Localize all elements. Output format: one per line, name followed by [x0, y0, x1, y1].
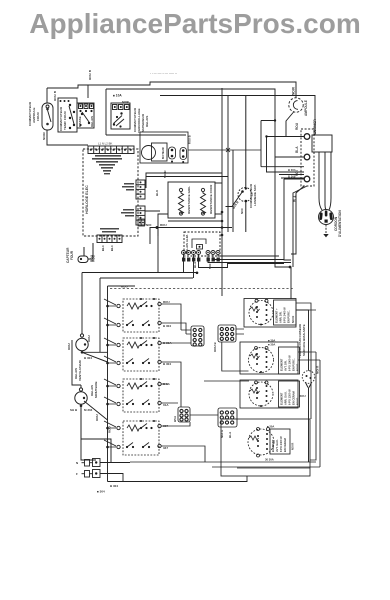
wire [310, 352, 320, 467]
label: marks above bottom strip [100, 228, 119, 233]
svg-text:MINUTERIE: MINUTERIE [94, 382, 98, 399]
wire feeds into bornier [261, 121, 304, 180]
element box 3 [279, 381, 300, 407]
label [133, 107, 149, 133]
svg-text:NOIR: NOIR [122, 100, 129, 104]
label [265, 425, 274, 462]
svg-text:NOIR: NOIR [42, 131, 46, 140]
svg-text:ROU B: ROU B [213, 342, 217, 353]
label [163, 424, 168, 450]
svg-text:30 30A: 30 30A [265, 458, 274, 462]
label [155, 170, 167, 196]
label [275, 307, 296, 323]
label [95, 414, 112, 433]
wire bottom bus lines [130, 462, 320, 468]
wire [250, 299, 268, 311]
label [76, 472, 78, 476]
wire relay2 to bottom bus [81, 406, 111, 482]
junction dots [241, 187, 247, 202]
bornier body box [312, 135, 332, 152]
element box 4 [270, 429, 290, 454]
svg-text:ROU: ROU [299, 394, 306, 398]
oven lamp (AMPOULE) [289, 98, 303, 112]
oven light switch upper (COMMUTATEUR LUMIERE SUP.) [238, 188, 252, 202]
svg-text:ROU B: ROU B [188, 135, 192, 144]
label [280, 355, 300, 371]
svg-text:RESISTANCE GRIL: RESISTANCE GRIL [187, 186, 191, 214]
label [292, 86, 309, 116]
label [293, 195, 297, 202]
connector plug CN-C [178, 407, 190, 422]
junction dots [306, 375, 312, 379]
svg-text:NOI R: NOI R [296, 364, 300, 371]
label [101, 245, 114, 251]
svg-text:AVT. GAU.: AVT. GAU. [275, 439, 279, 452]
svg-text:NOI R: NOI R [316, 365, 320, 374]
oven sensor (CAPTEUR FOUR) [78, 243, 93, 263]
wire CN-B down to burner 2 [222, 342, 249, 371]
wire [180, 409, 188, 421]
horizontal bus y227 [150, 228, 232, 245]
clock right connector CN2 [136, 206, 145, 225]
label [187, 184, 213, 214]
svg-text:■ 10A: ■ 10A [113, 94, 122, 98]
svg-text:HORLOGE ELEC: HORLOGE ELEC [85, 185, 89, 214]
junction dots [106, 420, 155, 448]
wire v2 [284, 179, 291, 260]
svg-text:RELAIS: RELAIS [145, 116, 149, 127]
hot surface indicator lamp (TEMOIN) [302, 371, 315, 384]
door lock switch (COMMUTATEUR VERROUILLAGE SUPERIEUR) [106, 89, 186, 135]
wire row1 into CN-A [181, 330, 191, 334]
svg-text:FOUR: FOUR [70, 250, 74, 260]
junction dots [106, 298, 155, 326]
svg-text:BORNIER: BORNIER [313, 119, 317, 134]
svg-text:B 304: B 304 [84, 356, 92, 360]
node junctions on spine [221, 211, 224, 237]
junction dots [113, 106, 128, 128]
wire v1 [275, 157, 289, 267]
wire motor box to spine [188, 148, 261, 152]
svg-text:VENTILATEUR: VENTILATEUR [78, 359, 82, 381]
svg-text:ROU: ROU [67, 343, 71, 350]
wire bulb to terminal block [286, 112, 294, 137]
svg-text:F: F [76, 472, 78, 476]
svg-text:NOI R: NOI R [291, 443, 295, 450]
svg-text:B 304: B 304 [110, 484, 118, 488]
svg-text:N: N [76, 461, 78, 465]
wire vertical from bus2 into light switch [46, 88, 48, 103]
svg-text:ELEMENT: ELEMENT [271, 439, 275, 452]
svg-text:ROU B: ROU B [88, 69, 92, 80]
label: faint print top [150, 71, 177, 75]
wire [179, 188, 182, 215]
breaker P2 [82, 470, 101, 478]
svg-text:L1 N L2 BK: L1 N L2 BK [98, 142, 112, 146]
svg-text:NOI R: NOI R [296, 398, 300, 405]
svg-text:BLK: BLK [155, 189, 159, 196]
junction dots [122, 183, 134, 191]
breaker P1 [82, 459, 101, 467]
timer relay circle lower [75, 388, 87, 404]
svg-text:■ 30A: ■ 30A [268, 343, 275, 347]
svg-text:ROU: ROU [90, 254, 94, 262]
label [76, 461, 78, 465]
bake element RESISTANCE FOUR [201, 192, 206, 214]
svg-text:ROU: ROU [121, 285, 128, 289]
wire [117, 302, 161, 326]
label [295, 119, 317, 176]
svg-text:NOIR: NOIR [163, 170, 167, 178]
svg-text:M 304: M 304 [84, 408, 93, 412]
svg-text:347: 347 [163, 446, 168, 450]
junction dots [256, 385, 268, 407]
svg-text:307: 307 [163, 424, 168, 428]
svg-text:SH B: SH B [70, 408, 78, 412]
wire [249, 428, 270, 458]
wire burner2 to right verticals [298, 352, 320, 360]
junction dots [196, 272, 199, 275]
clock bottom pin strip [97, 235, 122, 243]
label [280, 389, 300, 405]
label [66, 247, 96, 263]
svg-text:B 1A: B 1A [163, 382, 171, 386]
burner element 4 (dashed circle) [248, 429, 274, 455]
label: dense pin text under strip [92, 155, 122, 174]
svg-text:BLA: BLA [293, 195, 297, 202]
svg-text:NOI: NOI [240, 208, 244, 214]
label [163, 341, 172, 366]
relay coil [192, 239, 206, 249]
svg-text:BLA: BLA [295, 146, 299, 153]
svg-text:01A: 01A [163, 403, 169, 407]
svg-text:B 304: B 304 [288, 168, 296, 172]
wire burner1 to right bus [296, 303, 316, 419]
label [268, 339, 275, 347]
label [146, 223, 167, 227]
terminal pads [182, 258, 220, 262]
oven temp switch box (COMMUTATEUR TEMP. FOUR) [58, 98, 77, 132]
burner 2 enclosure [240, 342, 298, 374]
label [220, 429, 232, 438]
nested corner wires left [82, 230, 197, 353]
svg-text:ROU: ROU [160, 223, 167, 227]
wire [296, 310, 312, 462]
junction dots [79, 105, 92, 126]
junction dots [99, 238, 121, 240]
svg-text:NOI: NOI [208, 264, 212, 270]
wire [117, 341, 161, 364]
label: pin names above strip [98, 142, 112, 146]
wires from relay terminals [184, 255, 292, 279]
label [59, 106, 67, 131]
label [193, 261, 212, 269]
junction dots [81, 343, 87, 353]
junction dots [106, 378, 155, 405]
power cord plug (CORDON D'ALIMENTATION) [319, 210, 334, 225]
wire [47, 82, 315, 157]
surface switch unit A (double) [104, 299, 186, 334]
label [163, 300, 171, 328]
svg-text:ARR. DR.: ARR. DR. [279, 311, 283, 323]
wire [117, 424, 161, 448]
terminal block BORNIER dashed outline [301, 129, 314, 186]
wire top bus 2 [106, 89, 275, 157]
svg-text:FOUR: FOUR [36, 111, 40, 121]
label [163, 382, 171, 407]
wire [250, 347, 268, 359]
svg-text:EN PORC.: EN PORC. [292, 358, 296, 371]
junction dots [80, 258, 82, 260]
svg-text:■ 30A: ■ 30A [267, 425, 274, 429]
junction dots [140, 181, 142, 197]
junction dots [95, 461, 97, 463]
svg-text:8 PO 2400 W: 8 PO 2400 W [283, 307, 287, 323]
svg-text:ROU B: ROU B [53, 90, 57, 101]
fan relay enclosure [140, 132, 188, 163]
wires element box to clock connectors [145, 173, 228, 236]
svg-text:ROU: ROU [108, 426, 112, 433]
central spine wire [221, 88, 223, 296]
electronic clock dashed box (HORLOGE ELEC) [83, 149, 138, 236]
motor thermal protector [169, 147, 187, 160]
junction dots [80, 397, 86, 407]
svg-text:EN PORC.: EN PORC. [287, 310, 291, 323]
convection fan motor [142, 143, 168, 161]
wire [72, 273, 108, 386]
label [334, 210, 342, 237]
junction dots [106, 337, 155, 364]
spine second conductor [228, 96, 233, 233]
wire [81, 385, 108, 460]
svg-text:6 PO 1500 W: 6 PO 1500 W [288, 355, 292, 371]
broil element RESISTANCE GRIL [179, 192, 184, 214]
oven element box [168, 182, 215, 218]
svg-text:AVT. DR.: AVT. DR. [284, 360, 288, 371]
label [85, 185, 89, 214]
clock top pin strip [88, 146, 134, 154]
label A 10A [113, 94, 122, 98]
burner 4 enclosure (big bottom loop) [221, 419, 310, 476]
svg-text:ELEMENT: ELEMENT [280, 392, 284, 405]
element box 1 [274, 300, 297, 325]
junction dots [265, 119, 276, 137]
svg-text:B 308: B 308 [288, 175, 296, 179]
wire [250, 381, 268, 393]
surface switch unit C (double) [104, 379, 178, 412]
wire v4 [291, 186, 304, 254]
svg-text:B5A: B5A [173, 415, 177, 422]
wire row3 feed [204, 380, 249, 382]
burner 1 enclosure [244, 299, 296, 328]
element box 2 [279, 347, 300, 374]
svg-text:EN CERAM: EN CERAM [283, 438, 287, 452]
relay box beside temp switch [77, 103, 94, 128]
svg-text:MASSE: MASSE [78, 116, 82, 127]
svg-text:BLC: BLC [110, 245, 114, 251]
junction dots [60, 100, 76, 129]
junction dots [90, 149, 132, 151]
burner element 2 (dashed circle) [249, 348, 274, 373]
label [97, 484, 118, 494]
svg-text:NOI: NOI [295, 170, 299, 176]
wire breakers to bus [100, 463, 247, 482]
connector plug CN-B (9 pin) [218, 325, 236, 342]
bornier terminals [304, 134, 310, 182]
relay terminals [182, 251, 221, 255]
burner element 3 (dashed circle) [249, 382, 273, 406]
label [122, 100, 129, 104]
svg-text:ELEMENT: ELEMENT [280, 358, 284, 371]
node dot [156, 226, 159, 229]
svg-text:ROU: ROU [163, 300, 170, 304]
wire [325, 225, 327, 234]
svg-text:EN CERAM: EN CERAM [292, 391, 296, 405]
wire [193, 328, 202, 346]
label [185, 234, 189, 254]
burner 3 enclosure [240, 380, 298, 408]
svg-text:ROU: ROU [87, 335, 91, 342]
label [213, 342, 217, 353]
wire CN-B to burner 1 [236, 329, 244, 334]
wire vertical from bus1 into oven temp switch [87, 85, 89, 98]
surface switch unit D (double) [104, 421, 205, 462]
svg-text:NOIR: NOIR [292, 86, 296, 95]
svg-text:NOI: NOI [146, 223, 152, 227]
connector plug CN-D [218, 408, 237, 427]
svg-text:LUMIERE SUP.: LUMIERE SUP. [253, 184, 257, 206]
svg-text:BLA: BLA [193, 261, 197, 268]
wire [117, 382, 161, 405]
wire CN-C to CN-D [190, 414, 218, 416]
junction dots [171, 149, 185, 163]
junction dots [139, 222, 144, 224]
ground mark at cord [323, 234, 328, 237]
junction dots [140, 207, 142, 223]
junction dots [257, 433, 268, 450]
svg-text:RESISTANCE FOUR: RESISTANCE FOUR [209, 184, 213, 214]
aux connector under CN2 [138, 219, 145, 226]
label [298, 323, 320, 398]
svg-text:- - --- ---- -- --- ----- --: - - --- ---- -- --- ----- -- [150, 71, 177, 75]
junction dots [183, 252, 219, 254]
svg-text:D'ALIMENTATION: D'ALIMENTATION [338, 210, 342, 237]
surface switch unit B (double) [104, 338, 191, 407]
svg-text:MOTEUR: MOTEUR [161, 147, 165, 159]
svg-text:■ 304: ■ 304 [97, 490, 105, 494]
svg-text:TEMP. FOUR: TEMP. FOUR [63, 111, 67, 130]
svg-text:ROU: ROU [95, 414, 99, 421]
wire [220, 411, 234, 424]
svg-text:NOI R: NOI R [291, 316, 295, 323]
clock right connector CN1 [136, 180, 145, 199]
junction dots [256, 351, 268, 373]
wire [226, 96, 246, 233]
svg-text:ELEMENT +: ELEMENT + [275, 308, 279, 323]
label [78, 116, 94, 127]
svg-text:BLA: BLA [228, 431, 232, 438]
fan relay circle (RELAIS VENTILATEUR) [76, 334, 88, 351]
svg-text:B 30A: B 30A [163, 341, 172, 345]
junction dots [199, 246, 201, 248]
label [121, 285, 128, 289]
svg-text:B 304: B 304 [163, 362, 171, 366]
wire v3 from bornier bottom [293, 186, 307, 267]
label [271, 436, 295, 452]
burner element 1 (dashed circle) [249, 301, 273, 325]
svg-text:■ 30A: ■ 30A [268, 339, 275, 343]
svg-text:6 PO 1200 W: 6 PO 1200 W [288, 389, 292, 405]
wires bornier to power cord [319, 152, 331, 210]
junction dots [121, 209, 134, 217]
oven light switch S1 (COMMUTATEUR AMPOULE FOUR) [42, 103, 53, 130]
label [70, 382, 98, 413]
wire bundle down-left of cord [275, 157, 307, 299]
junction dots [289, 266, 292, 269]
svg-text:8 PO 2400 W: 8 PO 2400 W [279, 436, 283, 452]
svg-text:ROU: ROU [295, 122, 299, 130]
label [188, 135, 192, 144]
wire top bus 1 [47, 82, 296, 98]
left rail wire [108, 286, 136, 457]
label [173, 415, 177, 422]
wire top bus 3 [160, 96, 315, 136]
svg-text:B 304: B 304 [163, 324, 171, 328]
label COMMUTATEUR AMPOULE FOUR [28, 69, 92, 140]
wire [201, 188, 204, 215]
junction dots [46, 108, 49, 126]
label [232, 183, 257, 214]
junction dots [319, 211, 333, 223]
EMI filter relay box (RELAIS ALIM.) [184, 232, 220, 256]
svg-text:SURFACE BRULANTE: SURFACE BRULANTE [302, 324, 306, 356]
connector plug CN-A (8 pin) [191, 326, 204, 346]
svg-text:AMPOULE: AMPOULE [304, 100, 308, 116]
label [161, 147, 165, 159]
label [288, 168, 296, 179]
label [67, 335, 92, 381]
junction dots [256, 304, 268, 326]
junction dots [95, 472, 97, 474]
dashed surface enclosure top [110, 288, 293, 290]
wire main down to surface section [290, 267, 292, 299]
svg-text:RELAIS: RELAIS [90, 116, 94, 127]
svg-text:BLC: BLC [101, 245, 105, 251]
wire [220, 327, 234, 340]
svg-text:ARR. GAU.: ARR. GAU. [284, 391, 288, 405]
wire bottom of light switch to clock strip [47, 130, 88, 145]
